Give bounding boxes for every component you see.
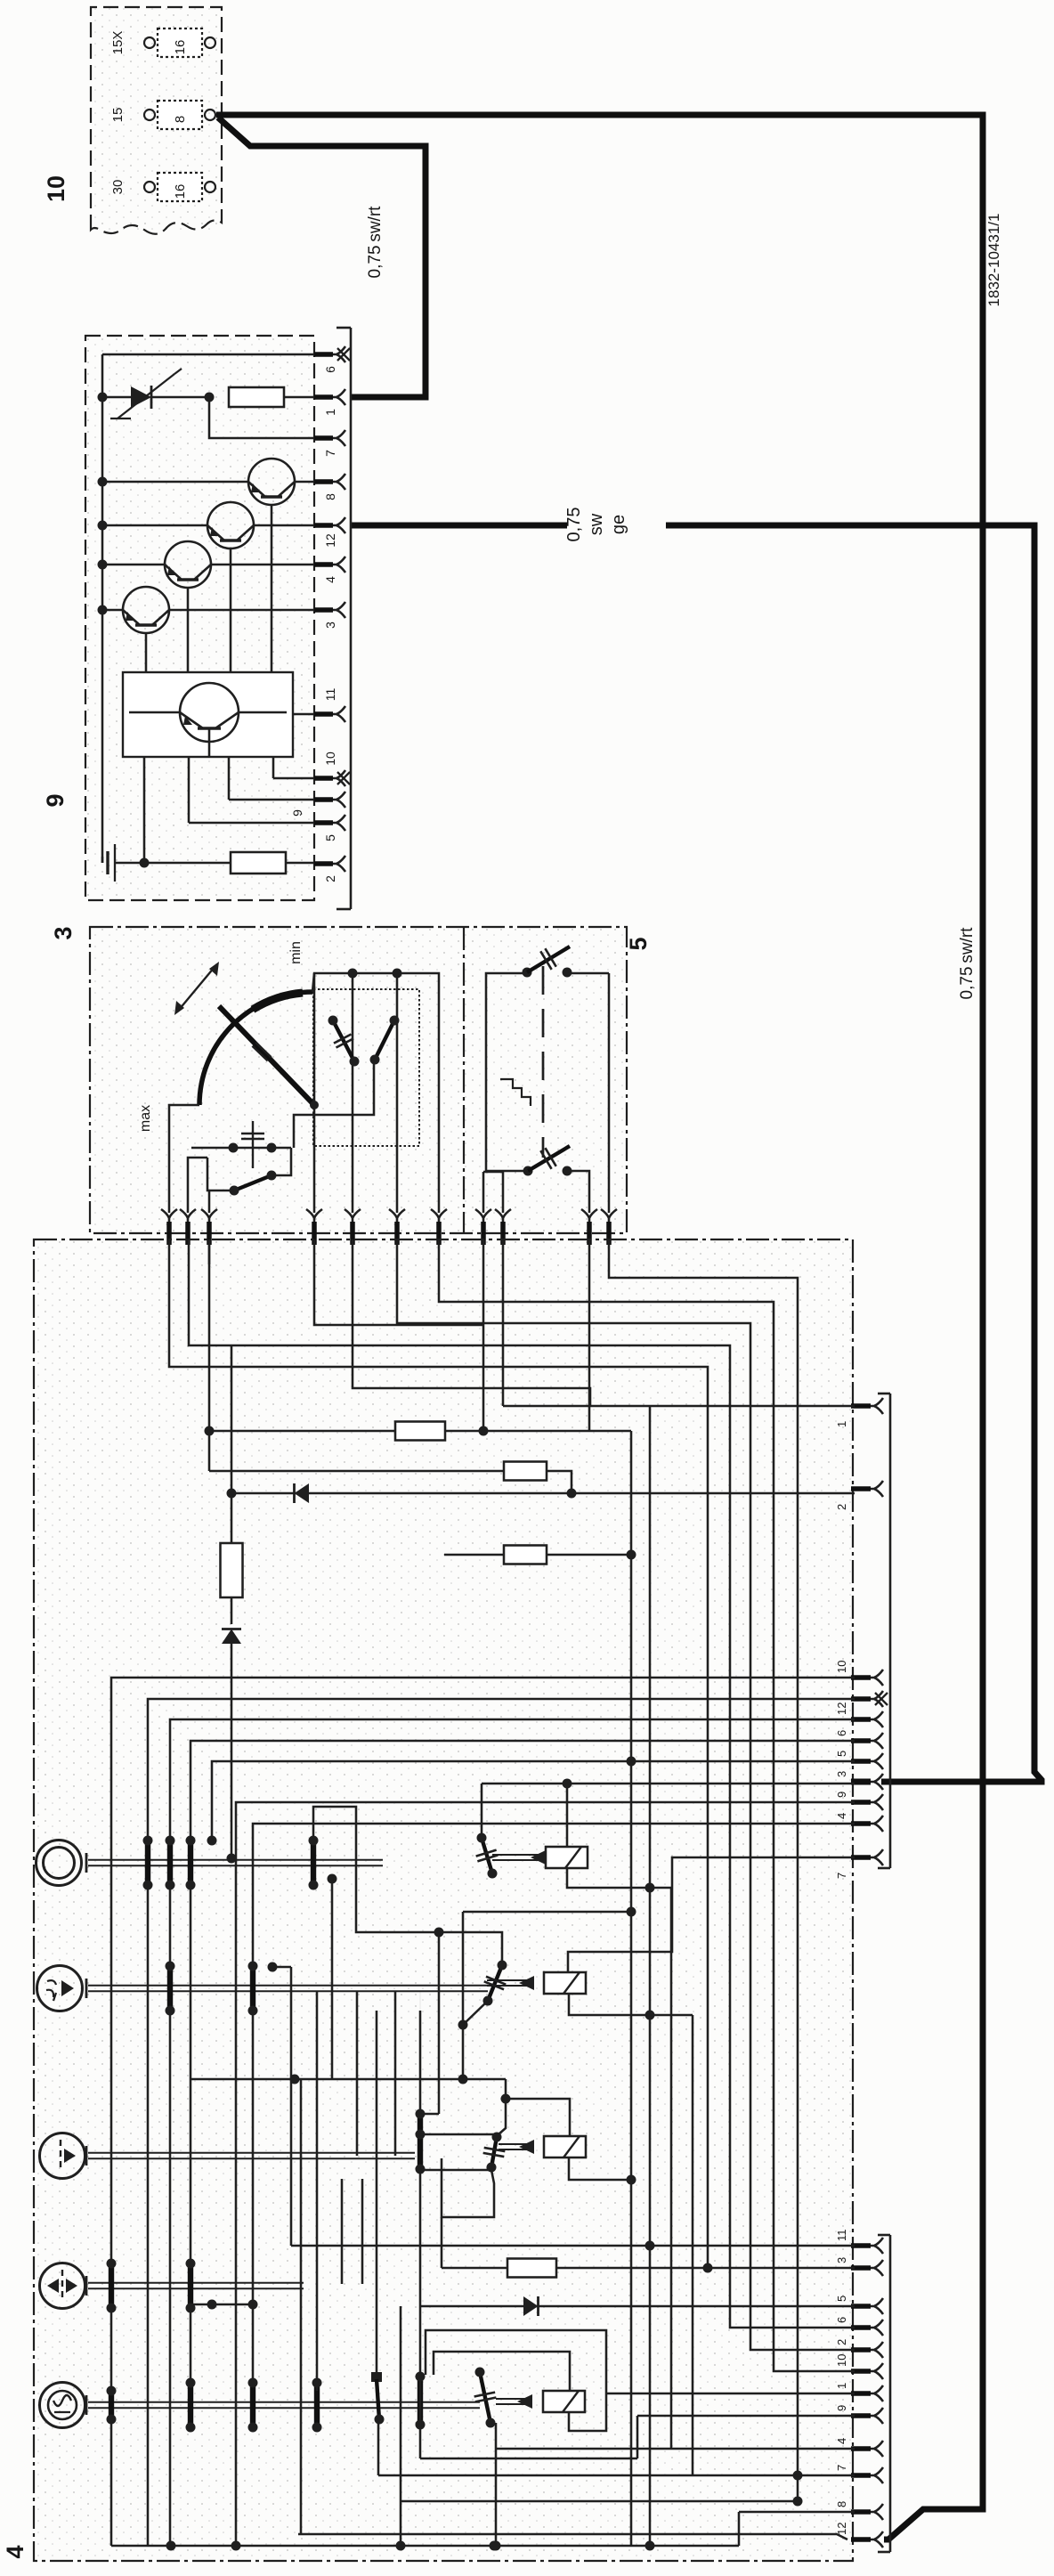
svg-text:1: 1 <box>835 1421 848 1427</box>
svg-text:4: 4 <box>835 2438 848 2444</box>
svg-text:5: 5 <box>835 2296 848 2302</box>
svg-text:7: 7 <box>323 450 337 457</box>
svg-text:0,75 sw/rt: 0,75 sw/rt <box>958 927 977 1000</box>
svg-text:6: 6 <box>835 1730 848 1736</box>
svg-text:ge: ge <box>609 515 628 534</box>
svg-text:2: 2 <box>835 2339 848 2345</box>
svg-text:4: 4 <box>2 2545 28 2558</box>
svg-text:15: 15 <box>110 108 126 123</box>
svg-text:7: 7 <box>835 1873 848 1879</box>
svg-text:3: 3 <box>50 926 77 939</box>
svg-text:4: 4 <box>835 1813 848 1819</box>
svg-text:3: 3 <box>835 2257 848 2263</box>
svg-text:16: 16 <box>173 40 188 55</box>
svg-text:2: 2 <box>835 1504 848 1510</box>
svg-text:8: 8 <box>835 2501 848 2507</box>
svg-text:1: 1 <box>323 409 337 416</box>
svg-text:0,75: 0,75 <box>564 508 584 542</box>
svg-text:9: 9 <box>42 793 69 807</box>
svg-text:12: 12 <box>323 533 337 548</box>
svg-text:6: 6 <box>835 2317 848 2323</box>
svg-text:11: 11 <box>323 688 337 702</box>
svg-text:10: 10 <box>323 752 337 766</box>
svg-text:10: 10 <box>835 1661 848 1673</box>
svg-text:3: 3 <box>323 622 337 629</box>
svg-text:min: min <box>288 941 304 964</box>
svg-text:max: max <box>138 1105 153 1132</box>
svg-text:2: 2 <box>323 875 337 882</box>
svg-text:8: 8 <box>323 493 337 500</box>
svg-text:7: 7 <box>835 2465 848 2471</box>
svg-text:1832-10431/1: 1832-10431/1 <box>985 214 1002 307</box>
svg-text:5: 5 <box>323 834 337 841</box>
svg-text:6: 6 <box>323 366 337 373</box>
svg-text:1: 1 <box>835 2383 848 2389</box>
svg-text:15X: 15X <box>110 31 126 55</box>
svg-text:30: 30 <box>110 180 126 195</box>
svg-text:9: 9 <box>835 1792 848 1798</box>
svg-text:12: 12 <box>835 1702 848 1715</box>
svg-text:sw: sw <box>587 513 606 535</box>
svg-text:0,75 sw/rt: 0,75 sw/rt <box>366 206 385 279</box>
svg-text:8: 8 <box>173 116 188 123</box>
svg-text:16: 16 <box>173 184 188 199</box>
svg-text:10: 10 <box>835 2354 848 2367</box>
svg-text:11: 11 <box>835 2230 848 2242</box>
svg-text:9: 9 <box>835 2405 848 2411</box>
svg-text:5: 5 <box>835 1751 848 1757</box>
svg-text:5: 5 <box>625 937 652 950</box>
svg-text:3: 3 <box>835 1771 848 1777</box>
svg-text:4: 4 <box>323 576 337 583</box>
svg-text:10: 10 <box>43 175 69 202</box>
svg-text:9: 9 <box>290 809 304 817</box>
